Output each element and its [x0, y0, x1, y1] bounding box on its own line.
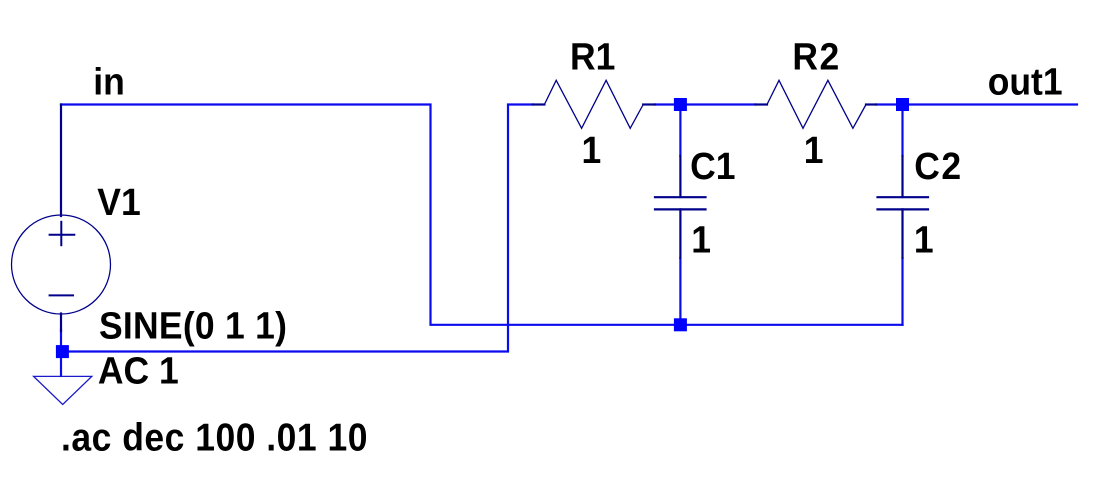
svg-text:C2: C2 [914, 145, 962, 187]
svg-text:R1: R1 [570, 36, 615, 78]
svg-text:R2: R2 [792, 36, 840, 78]
svg-text:1: 1 [804, 129, 824, 171]
svg-text:C1: C1 [690, 145, 735, 187]
svg-text:1: 1 [691, 219, 711, 261]
svg-text:out1: out1 [988, 61, 1063, 103]
svg-text:AC 1: AC 1 [98, 349, 179, 391]
svg-text:SINE(0 1 1): SINE(0 1 1) [99, 304, 287, 346]
svg-text:.ac dec 100 .01 10: .ac dec 100 .01 10 [61, 415, 368, 459]
svg-text:V1: V1 [97, 181, 140, 223]
svg-text:1: 1 [582, 129, 602, 171]
svg-text:in: in [93, 60, 125, 102]
svg-text:1: 1 [914, 219, 934, 261]
